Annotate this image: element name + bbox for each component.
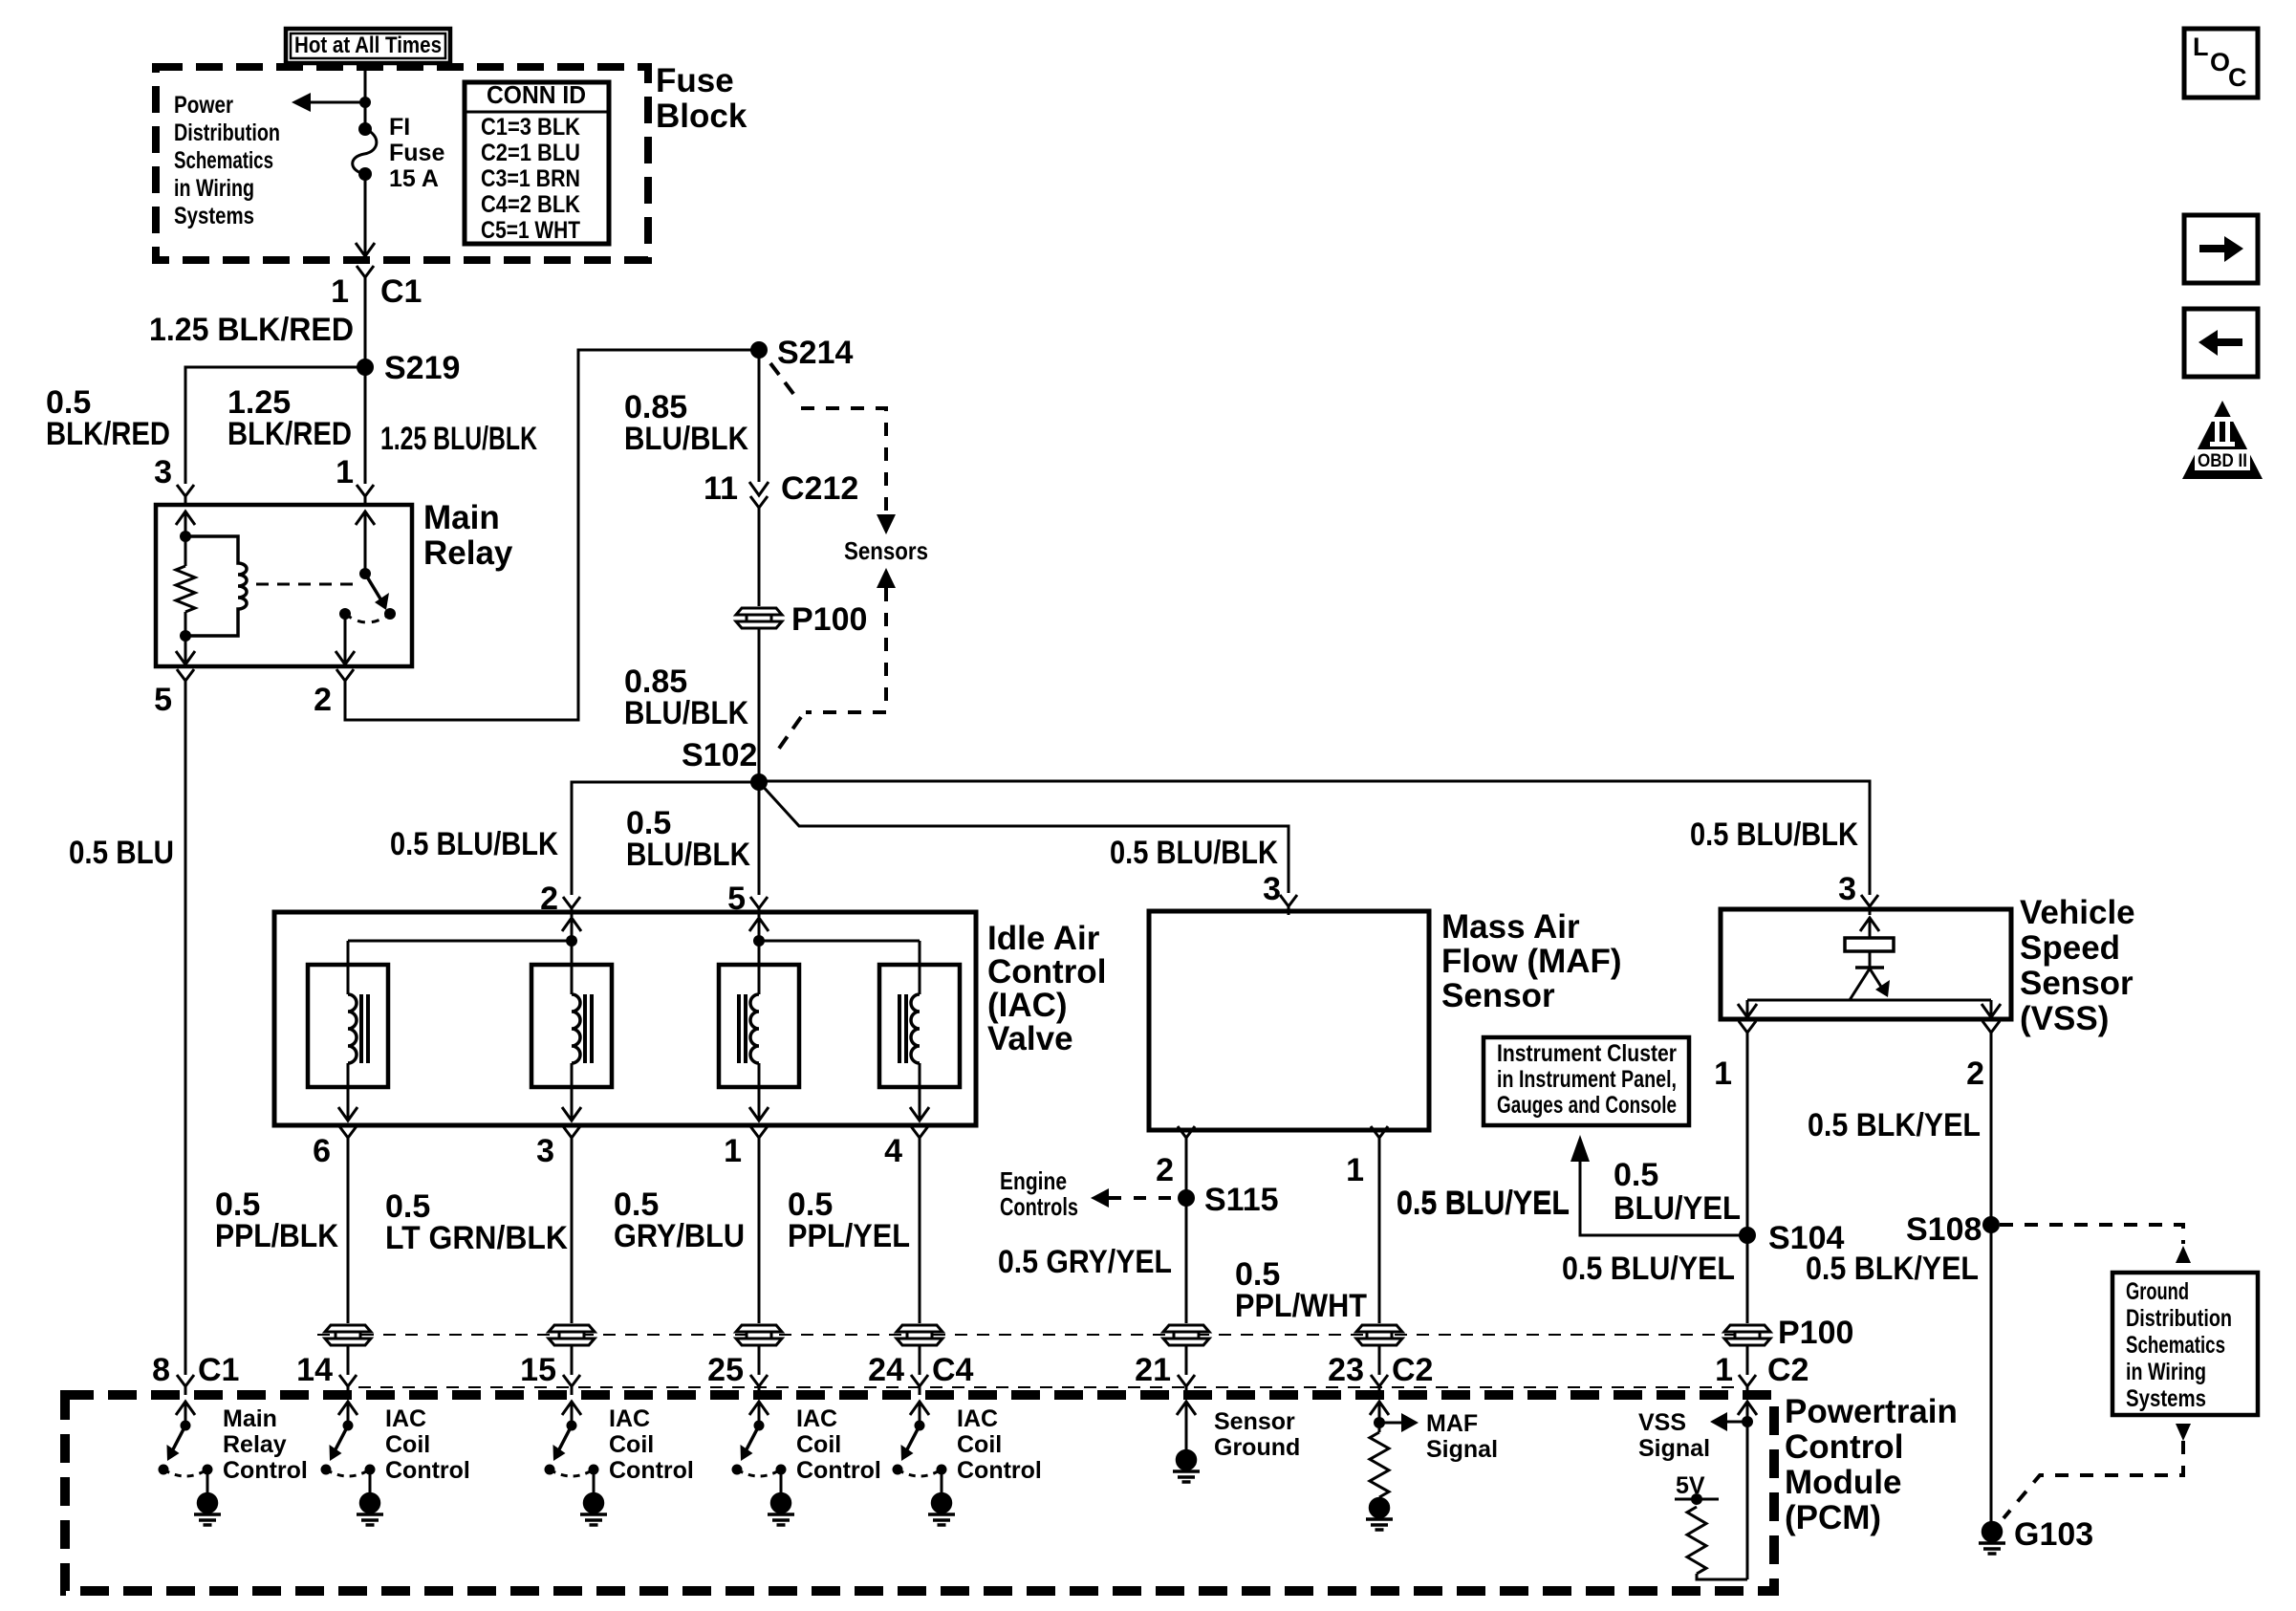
connector C1 arrowhead (356, 243, 375, 256)
svg-text:3: 3 (536, 1133, 554, 1169)
IAC coil control switch 2 (550, 1402, 594, 1493)
PCM VSS signal input arrow (1738, 1402, 1757, 1415)
PCM pin 15 connector fork (563, 1375, 580, 1395)
wire hot feed to fuse (364, 63, 367, 129)
svg-text:Speed: Speed (2020, 929, 2120, 967)
IAC pin 1 connector fork (750, 1126, 768, 1146)
back arrow icon (2199, 330, 2242, 356)
relay coil wire top (184, 512, 187, 536)
wire 0.5 BLK/RED S219 to relay pin 3 (185, 367, 365, 484)
relay coil bottom node (180, 630, 191, 642)
svg-text:G103: G103 (2014, 1516, 2093, 1553)
IAC internal node pin2 (566, 935, 577, 947)
svg-text:Powertrain: Powertrain (1785, 1393, 1958, 1430)
svg-text:Valve: Valve (987, 1020, 1073, 1057)
VSS pickup left diagonal (1850, 969, 1870, 1000)
svg-text:0.5 BLU/YEL: 0.5 BLU/YEL (1562, 1251, 1735, 1287)
wire 1.25 BLK/RED S219 to relay pin 1 (364, 367, 367, 484)
wire 0.5 BLU relay pin5 to PCM pin8 (184, 689, 187, 1375)
dashed reference ground distribution to G103 (2004, 1441, 2183, 1518)
svg-text:Coil: Coil (385, 1431, 430, 1458)
wire P100 to PCM pin1 (1746, 1346, 1749, 1375)
splice S104 (1739, 1227, 1756, 1244)
IAC coil 2 exit arrow (562, 1107, 581, 1121)
relay switch common wire (364, 512, 367, 574)
svg-text:Gauges and Console: Gauges and Console (1497, 1092, 1677, 1119)
svg-text:C2: C2 (1767, 1352, 1809, 1388)
svg-text:PPL/BLK: PPL/BLK (215, 1218, 338, 1254)
VSS pin 2 connector fork (1982, 1021, 2000, 1041)
relay pin3 entry arrow (176, 512, 195, 525)
wire grommet to PCM fork at x794 (758, 1346, 761, 1375)
svg-text:0.5: 0.5 (1614, 1157, 1658, 1193)
svg-text:Power: Power (174, 92, 233, 119)
IAC pin5 internal wire (758, 918, 761, 941)
svg-text:C5=1 WHT: C5=1 WHT (481, 217, 580, 244)
PCM pin 24 connector fork (911, 1375, 928, 1395)
PCM VSS signal arrowhead (1710, 1412, 1727, 1431)
IAC coil 4 exit arrow (910, 1107, 929, 1121)
svg-text:S115: S115 (1204, 1182, 1279, 1218)
VSS sensor top lead (1869, 918, 1872, 938)
svg-text:Module: Module (1785, 1464, 1901, 1501)
svg-text:15 A: 15 A (389, 165, 439, 192)
svg-text:6: 6 (313, 1133, 331, 1169)
svg-text:L: L (2193, 33, 2209, 61)
IAC coil 4 core bars (899, 994, 906, 1063)
wire 1.25 BLU/BLK relay pin2 to S214 (345, 350, 751, 720)
back arrow icon box (2184, 309, 2258, 377)
svg-text:24: 24 (868, 1352, 904, 1388)
svg-text:IAC: IAC (385, 1405, 426, 1432)
svg-text:0.5 BLU/BLK: 0.5 BLU/BLK (1110, 835, 1278, 871)
svg-text:Fuse: Fuse (656, 62, 734, 99)
svg-text:0.5 BLK/YEL: 0.5 BLK/YEL (1808, 1107, 1981, 1143)
PCM pin 1 C2 connector fork (1739, 1375, 1756, 1395)
svg-text:Idle Air: Idle Air (987, 920, 1100, 957)
PCM pin 25 connector fork (750, 1375, 768, 1395)
IAC coil 1 core bars (361, 994, 368, 1063)
svg-text:Systems: Systems (2126, 1385, 2206, 1412)
svg-text:BLU/BLK: BLU/BLK (624, 695, 748, 731)
dashed reference diagonal to S102 (776, 717, 801, 752)
VSS internal output wire (1747, 999, 1991, 1002)
svg-text:Control: Control (223, 1457, 308, 1484)
svg-text:Relay: Relay (223, 1431, 287, 1458)
svg-text:11: 11 (704, 470, 738, 507)
IAC coil control switch 1 (326, 1402, 370, 1493)
svg-text:in Wiring: in Wiring (2126, 1359, 2206, 1385)
svg-text:Controls: Controls (1000, 1192, 1078, 1221)
PCM sensor ground wire (1185, 1402, 1188, 1451)
svg-text:GRY/BLU: GRY/BLU (614, 1218, 745, 1254)
wire grommet to PCM fork at x1241 (1185, 1346, 1188, 1375)
svg-text:FI: FI (389, 114, 410, 141)
svg-text:3: 3 (1838, 871, 1856, 907)
svg-text:BLU/YEL: BLU/YEL (1614, 1190, 1741, 1227)
IAC coil 3 wire lower (758, 1063, 761, 1121)
wire 0.5 BLU/YEL S104 to instrument cluster (1580, 1162, 1747, 1235)
relay pin 1 connector fork (357, 485, 374, 505)
ground distribution arrow up (2176, 1246, 2191, 1263)
IAC coil 2 winding (572, 994, 580, 1063)
relay resistor top lead (184, 536, 187, 566)
svg-text:Coil: Coil (957, 1431, 1002, 1458)
relay pin2 exit arrow (336, 651, 355, 664)
PCM MAF resistor lead (1378, 1497, 1381, 1499)
IAC coil 1 wire upper (347, 941, 350, 994)
relay pin1 entry arrow (356, 512, 375, 525)
svg-text:Main: Main (423, 499, 500, 536)
svg-text:1: 1 (1714, 1056, 1732, 1092)
svg-text:BLU/BLK: BLU/BLK (624, 421, 748, 457)
wire 0.5 BLU/BLK S102 to IAC pin2 (572, 782, 759, 895)
relay switch arm (365, 574, 381, 600)
wire IAC pin to PCM at x598 (571, 1140, 574, 1323)
forward arrow icon (2199, 236, 2243, 262)
IAC coil control switch 3 ground (768, 1494, 794, 1526)
svg-text:OBD II: OBD II (2198, 451, 2247, 471)
svg-text:0.5 BLU/YEL: 0.5 BLU/YEL (1397, 1186, 1570, 1222)
svg-text:C2=1 BLU: C2=1 BLU (481, 140, 580, 166)
wire 0.85 BLU/BLK P100 to S102 (758, 629, 761, 782)
svg-text:0.5 GRY/YEL: 0.5 GRY/YEL (998, 1244, 1172, 1280)
IAC pin2 entry arrow (562, 918, 581, 931)
svg-text:1: 1 (336, 454, 354, 490)
svg-text:P100: P100 (1778, 1315, 1853, 1351)
svg-text:Coil: Coil (609, 1431, 654, 1458)
PCM VSS signal wire (1746, 1402, 1749, 1579)
wire 0.5 BLU/BLK S102 to IAC pin5 (758, 782, 761, 895)
svg-text:Sensor: Sensor (2020, 965, 2134, 1002)
sensors arrow down (877, 514, 896, 534)
wire IAC pin to PCM at x794 (758, 1140, 761, 1323)
connector C1 fork (357, 266, 374, 286)
PCM MAF signal ground (1366, 1499, 1393, 1531)
dashed reference S214 diagonal (770, 363, 797, 399)
IAC coil 2 box (531, 965, 612, 1087)
PCM 5V rail (1675, 1498, 1719, 1501)
grommet P100 on trunk (736, 608, 782, 628)
wire 0.85 BLU/BLK S214 to C212 (758, 350, 761, 482)
conn id table box (465, 82, 609, 244)
relay coil winding (185, 536, 247, 636)
svg-text:0.5 BLU/BLK: 0.5 BLU/BLK (390, 826, 558, 862)
svg-text:0.5 BLK/YEL: 0.5 BLK/YEL (1806, 1251, 1979, 1287)
connector C212 fork (750, 496, 768, 516)
svg-text:21: 21 (1135, 1352, 1171, 1388)
svg-text:Main: Main (223, 1405, 277, 1432)
wire 0.5 GRY/YEL MAF pin2 to S115 (1185, 1140, 1188, 1198)
IAC pin 4 connector fork (911, 1126, 928, 1146)
connector C212 arrowhead (749, 482, 769, 495)
dashed reference S214 to sensors (801, 408, 886, 514)
svg-text:2: 2 (1966, 1056, 1984, 1092)
mass air flow sensor box (1149, 911, 1429, 1130)
PCM MAF signal branch (1379, 1422, 1401, 1425)
grommet P100 row at x1241 (1163, 1325, 1209, 1345)
wire tap to power distribution (298, 101, 365, 104)
VSS pin1 exit arrow (1738, 1004, 1757, 1017)
idle air control valve box (274, 912, 976, 1125)
VSS pin2 internal drop (1990, 1000, 1993, 1017)
relay pin 3 connector fork (177, 485, 194, 505)
dashed reference S115 to engine controls (1109, 1196, 1178, 1200)
svg-text:Relay: Relay (423, 534, 513, 572)
PCM MAF signal arrowhead (1401, 1413, 1419, 1432)
svg-text:1: 1 (724, 1133, 742, 1169)
relay contact dashed arc (345, 614, 390, 622)
splice S115 (1178, 1189, 1195, 1207)
svg-text:Distribution: Distribution (2126, 1305, 2232, 1332)
IAC pin 6 connector fork (339, 1126, 357, 1146)
relay pin 2 connector fork (336, 669, 354, 689)
IAC pin5 entry arrow (749, 918, 769, 931)
LOC reference icon box (2184, 29, 2258, 98)
svg-text:Instrument Cluster: Instrument Cluster (1497, 1040, 1677, 1067)
svg-text:5: 5 (154, 682, 172, 718)
wire C212 to P100 (758, 510, 761, 606)
powertrain control module dashed box (65, 1395, 1774, 1591)
svg-text:LT GRN/BLK: LT GRN/BLK (385, 1220, 568, 1256)
svg-text:Block: Block (656, 98, 747, 135)
MAF pin 2 connector fork (1178, 1126, 1195, 1146)
PCM MAF signal wire (1378, 1402, 1381, 1432)
wire 0.5 BLU/YEL VSS pin1 to S104 (1746, 1034, 1749, 1235)
svg-text:Signal: Signal (1638, 1435, 1710, 1462)
hot at all times box inner (291, 33, 445, 58)
svg-text:IAC: IAC (609, 1405, 650, 1432)
svg-text:Schematics: Schematics (2126, 1332, 2225, 1359)
wire S115 to PCM pin21 (1185, 1198, 1188, 1323)
wire grommet to PCM fork at x1443 (1378, 1346, 1381, 1375)
VSS pin 3 connector fork (1861, 895, 1878, 915)
svg-text:C4: C4 (932, 1352, 974, 1388)
main relay control switch (163, 1402, 207, 1493)
grommet P100 row at x364 (325, 1325, 371, 1345)
svg-text:Sensor: Sensor (1441, 977, 1555, 1014)
PCM MAF signal input arrow (1370, 1402, 1389, 1415)
main relay box (156, 505, 412, 666)
IAC coil 3 box (719, 965, 799, 1087)
svg-text:1: 1 (331, 273, 349, 310)
svg-text:PPL/WHT: PPL/WHT (1235, 1288, 1367, 1324)
IAC internal wire to coil1 (348, 940, 572, 943)
VSS sensor mid lead (1869, 951, 1872, 968)
svg-text:1: 1 (1715, 1352, 1733, 1388)
relay coil wire bottom (184, 636, 187, 664)
svg-text:S214: S214 (777, 335, 853, 371)
forward arrow icon box (2184, 215, 2258, 283)
IAC coil control switch 4 (898, 1402, 942, 1493)
svg-text:BLK/RED: BLK/RED (46, 416, 170, 452)
IAC internal wire to coil4 (759, 940, 920, 943)
PCM VSS pullup bottom wire (1697, 1574, 1747, 1579)
VSS pin3 entry arrow (1860, 918, 1879, 931)
svg-text:2: 2 (314, 682, 332, 718)
wire IAC pin to PCM at x364 (347, 1140, 350, 1323)
PCM 5V rail node (1691, 1493, 1702, 1505)
VSS sensor T bar (1855, 966, 1884, 969)
svg-text:Ground: Ground (1214, 1434, 1300, 1461)
wire grommet to PCM fork at x364 (347, 1346, 350, 1375)
svg-text:15: 15 (520, 1352, 556, 1388)
grommet P100 row at x1443 (1356, 1325, 1402, 1345)
PCM pin 21 connector fork (1178, 1375, 1195, 1395)
relay coil top node (180, 531, 191, 542)
svg-text:Signal: Signal (1426, 1436, 1498, 1463)
IAC coil 3 wire upper (758, 941, 761, 994)
svg-text:C212: C212 (781, 470, 858, 507)
svg-text:Control: Control (957, 1457, 1042, 1484)
conn id table header rule (465, 111, 609, 114)
sensors arrow up (877, 568, 896, 588)
VSS pin2 exit arrow (1982, 1004, 2001, 1017)
svg-text:(VSS): (VSS) (2020, 1000, 2109, 1037)
main relay control switch ground (194, 1494, 221, 1526)
wire 0.5 BLU/BLK S102 to MAF pin3 (759, 782, 1289, 893)
svg-text:14: 14 (296, 1352, 333, 1388)
splice S102 (750, 773, 768, 791)
svg-text:23: 23 (1328, 1352, 1364, 1388)
IAC pin 3 connector fork (563, 1126, 580, 1146)
IAC pin 2 connector fork (563, 897, 580, 917)
wire 0.5 PPL/WHT MAF pin1 to PCM pin23 (1378, 1140, 1381, 1323)
ground G103 symbol (1979, 1523, 2005, 1555)
svg-text:Schematics: Schematics (174, 147, 273, 174)
ground distribution box (2112, 1273, 2258, 1415)
relay output wire (344, 614, 347, 664)
connector row dashed line C4 C2 (358, 1386, 1740, 1388)
IAC coil 1 box (308, 965, 388, 1087)
vehicle speed sensor box (1721, 909, 2011, 1019)
IAC coil 4 wire upper (919, 941, 921, 994)
svg-text:Control: Control (796, 1457, 881, 1484)
OBD II triangle icon (2182, 401, 2263, 479)
svg-text:4: 4 (884, 1133, 902, 1169)
svg-text:Coil: Coil (796, 1431, 841, 1458)
svg-text:1.25 BLK/RED: 1.25 BLK/RED (149, 312, 354, 348)
svg-text:C1=3 BLK: C1=3 BLK (481, 114, 580, 141)
svg-text:Sensors: Sensors (844, 536, 928, 565)
svg-text:Control: Control (609, 1457, 694, 1484)
svg-text:in Instrument Panel,: in Instrument Panel, (1497, 1066, 1677, 1093)
splice S214 (750, 341, 768, 359)
IAC coil 3 exit arrow (749, 1107, 769, 1121)
IAC coil 1 winding (348, 994, 357, 1063)
junction dot power distribution tap (359, 97, 371, 108)
instrument cluster box (1484, 1037, 1689, 1125)
wire 1.25 BLK/RED C1 to S219 (364, 279, 367, 367)
svg-text:1: 1 (1346, 1152, 1364, 1188)
hot at all times box outer (286, 29, 450, 63)
VSS pin1 internal drop (1746, 1000, 1749, 1017)
svg-text:Hot at All Times: Hot at All Times (294, 33, 442, 58)
relay contact right (384, 608, 396, 620)
IAC coil 2 wire lower (571, 1063, 574, 1121)
svg-text:O: O (2210, 48, 2230, 76)
svg-text:8: 8 (152, 1352, 170, 1388)
relay resistor bottom lead (184, 612, 187, 636)
IAC pin 5 connector fork (750, 897, 768, 917)
svg-text:S108: S108 (1906, 1211, 1982, 1248)
PCM VSS pullup resistor (1687, 1507, 1706, 1574)
relay actuator dashed link (256, 583, 357, 586)
svg-text:25: 25 (707, 1352, 744, 1388)
svg-text:Ground: Ground (2126, 1278, 2189, 1305)
svg-text:C2: C2 (1392, 1352, 1433, 1388)
svg-text:Systems: Systems (174, 203, 254, 229)
wire IAC pin to PCM at x962 (919, 1140, 921, 1323)
IAC coil 4 box (879, 965, 960, 1087)
PCM pin 8 connector fork (177, 1375, 194, 1395)
svg-text:0.5 BLU/BLK: 0.5 BLU/BLK (1690, 816, 1858, 853)
wire fuse to connector C1 (364, 174, 367, 256)
svg-text:(IAC): (IAC) (987, 987, 1068, 1024)
relay resistor (176, 566, 195, 612)
wire grommet to PCM fork at x598 (571, 1346, 574, 1375)
svg-text:BLU/BLK: BLU/BLK (626, 837, 750, 873)
VSS pickup right diagonal with arrow (1870, 969, 1881, 987)
PCM MAF signal node (1374, 1417, 1385, 1428)
grommet P100 row at x962 (897, 1325, 942, 1345)
svg-text:MAF: MAF (1426, 1410, 1478, 1437)
grommet P100 row at x794 (736, 1325, 782, 1345)
svg-text:IAC: IAC (957, 1405, 998, 1432)
PCM pin 14 connector fork (339, 1375, 357, 1395)
svg-text:1.25 BLU/BLK: 1.25 BLU/BLK (380, 421, 537, 457)
PCM VSS signal node (1742, 1416, 1753, 1427)
svg-text:Fuse: Fuse (389, 140, 444, 166)
MAF pin 3 connector fork (1280, 895, 1297, 915)
fuse FI 15A symbol (353, 129, 377, 174)
svg-text:Control: Control (385, 1457, 470, 1484)
svg-text:(PCM): (PCM) (1785, 1499, 1881, 1536)
fuse block dashed box (156, 67, 648, 260)
IAC coil 1 wire lower (347, 1063, 350, 1121)
svg-text:CONN ID: CONN ID (487, 80, 586, 109)
svg-text:P100: P100 (791, 601, 867, 638)
IAC coil control switch 4 ground (928, 1494, 955, 1526)
svg-text:VSS: VSS (1638, 1409, 1686, 1436)
engine controls arrowhead (1091, 1188, 1109, 1208)
instrument cluster arrow (1570, 1135, 1590, 1162)
svg-text:Mass Air: Mass Air (1441, 908, 1580, 946)
IAC coil 3 winding (750, 994, 759, 1063)
svg-text:Sensor: Sensor (1214, 1408, 1295, 1435)
svg-text:C1: C1 (380, 273, 422, 310)
wire 0.5 BLU/BLK S102 to VSS pin3 (759, 781, 1870, 895)
wire grommet to PCM fork at x962 (919, 1346, 921, 1375)
arrowhead to power distribution (292, 93, 311, 112)
IAC coil 3 core bars (739, 994, 746, 1063)
splice S108 (1982, 1216, 2000, 1233)
svg-text:2: 2 (1156, 1152, 1174, 1188)
VSS sensor element rect (1845, 938, 1894, 951)
svg-text:Control: Control (1785, 1428, 1903, 1466)
PCM VSS signal branch (1727, 1421, 1747, 1424)
grommet P100 row at x598 (549, 1325, 595, 1345)
svg-text:Control: Control (987, 953, 1106, 991)
MAF pin 1 connector fork (1371, 1126, 1388, 1146)
svg-text:PPL/YEL: PPL/YEL (788, 1218, 910, 1254)
relay contact left (339, 608, 351, 620)
grommet P100 on VSS wire (1724, 1325, 1770, 1345)
relay pin5 exit arrow (176, 651, 195, 664)
svg-text:Distribution: Distribution (174, 120, 280, 146)
svg-text:in Wiring: in Wiring (174, 175, 254, 202)
PCM sensor ground symbol (1173, 1451, 1200, 1483)
